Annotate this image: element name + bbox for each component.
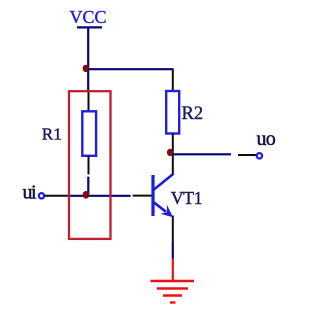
ground lead (red) bbox=[172, 259, 174, 281]
svg-text:uo: uo bbox=[257, 128, 276, 150]
VCC power rail bar bbox=[77, 26, 102, 28]
R1 top lead bbox=[88, 92, 90, 113]
resistor R1 body bbox=[82, 111, 96, 156]
ui terminal lead bbox=[45, 195, 70, 197]
svg-text:VT1: VT1 bbox=[171, 188, 203, 208]
svg-text:R2: R2 bbox=[182, 104, 204, 124]
R2 bottom lead / collector stub through node C bbox=[172, 134, 174, 174]
input terminal ui circle bbox=[39, 193, 44, 198]
svg-text:R1: R1 bbox=[42, 125, 62, 144]
wire: node C to uo lead bbox=[173, 153, 232, 155]
uo terminal lead bbox=[238, 154, 257, 156]
node B junction dot bbox=[83, 191, 90, 199]
R2 top lead bbox=[172, 70, 174, 92]
svg-text:VCC: VCC bbox=[70, 7, 107, 27]
transistor base lead bbox=[133, 195, 152, 197]
wire: node A right to R2 corner bbox=[87, 68, 174, 70]
ground symbol bbox=[151, 281, 195, 303]
output terminal uo circle bbox=[257, 153, 262, 158]
emitter lead bbox=[172, 216, 174, 243]
wire: ui to node B to base region bbox=[69, 195, 131, 197]
node A junction dot bbox=[83, 65, 89, 72]
resistor R2 body bbox=[166, 91, 179, 134]
svg-text:ui: ui bbox=[23, 181, 38, 203]
wire: emitter lead to ground bbox=[172, 242, 174, 259]
transistor VT1 bbox=[153, 174, 174, 218]
R1 bottom lead bbox=[88, 156, 90, 175]
wire: R1 lead down to node B bbox=[87, 177, 89, 194]
highlight box around R1 bbox=[69, 91, 111, 239]
wire: VCC rail down to node A bbox=[87, 29, 89, 69]
node C junction dot bbox=[167, 149, 174, 156]
wire: node A down to R1 top lead bbox=[87, 68, 89, 92]
